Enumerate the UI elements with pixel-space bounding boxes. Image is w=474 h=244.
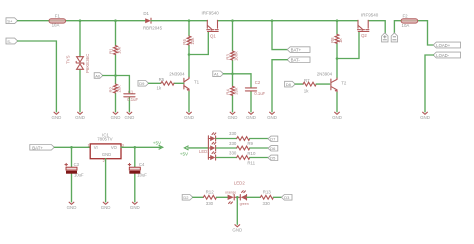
svg-text:F2: F2 bbox=[403, 14, 409, 19]
ground R2 bbox=[111, 112, 121, 120]
junction rail-R6 bbox=[188, 19, 191, 22]
svg-text:330: 330 bbox=[229, 141, 237, 146]
resistor R3 bbox=[225, 21, 238, 74]
flag LOAD- bbox=[433, 52, 460, 58]
resistor R1 bbox=[108, 21, 121, 76]
fuse F2 bbox=[401, 14, 418, 29]
svg-text:D7: D7 bbox=[270, 136, 276, 141]
capacitor C3 bbox=[65, 147, 84, 202]
svg-text:330: 330 bbox=[206, 201, 214, 206]
wire gate node Q2 bbox=[337, 32, 359, 59]
svg-text:T2: T2 bbox=[341, 81, 347, 86]
svg-text:1k: 1k bbox=[157, 85, 162, 90]
ground C1 bbox=[125, 112, 135, 120]
svg-text:T1: T1 bbox=[194, 80, 200, 85]
transistor T1 2N3904 bbox=[169, 55, 199, 112]
junction LED2 center bbox=[236, 196, 239, 199]
svg-text:0.1uF: 0.1uF bbox=[127, 97, 138, 102]
svg-text:Q2: Q2 bbox=[361, 33, 367, 38]
wire BAT+ stub bbox=[272, 21, 287, 50]
svg-text:10uF: 10uF bbox=[137, 173, 147, 178]
capacitor C1 bbox=[124, 76, 139, 112]
svg-text:330: 330 bbox=[263, 201, 271, 206]
svg-text:S-: S- bbox=[7, 39, 12, 44]
svg-text:Q1: Q1 bbox=[210, 33, 216, 38]
supply +5V arrow left LED1 bbox=[180, 146, 209, 157]
svg-text:A0: A0 bbox=[95, 73, 101, 78]
svg-text:20k: 20k bbox=[117, 85, 122, 93]
junction C4 bbox=[134, 146, 137, 149]
junction R8-gate bbox=[336, 57, 339, 60]
flag D8 bbox=[285, 81, 296, 87]
flag S- bbox=[6, 38, 18, 44]
svg-text:10A: 10A bbox=[52, 23, 60, 28]
flag A0 bbox=[94, 73, 103, 79]
svg-text:1: 1 bbox=[88, 144, 90, 148]
wire IC1 GND pin bbox=[105, 159, 107, 202]
svg-text:D9: D9 bbox=[139, 81, 145, 86]
resistor R11 bbox=[216, 151, 268, 166]
svg-text:0.1uF: 0.1uF bbox=[254, 91, 265, 96]
svg-text:D2: D2 bbox=[183, 195, 189, 200]
junction C3 bbox=[70, 146, 73, 149]
resistor R5 bbox=[149, 77, 174, 91]
svg-text:C1: C1 bbox=[128, 89, 134, 94]
svg-text:R5: R5 bbox=[159, 77, 165, 82]
svg-text:20k: 20k bbox=[234, 87, 239, 95]
svg-text:RBR2045: RBR2045 bbox=[143, 26, 163, 31]
flag S+ bbox=[6, 18, 18, 24]
flag D6 bbox=[268, 146, 278, 151]
flag A1 bbox=[213, 71, 224, 77]
svg-text:S+: S+ bbox=[7, 19, 13, 24]
svg-text:P6KE36C: P6KE36C bbox=[85, 54, 90, 73]
resistor R7 bbox=[295, 78, 329, 93]
svg-text:D8: D8 bbox=[286, 82, 292, 87]
ground TVS bbox=[75, 112, 85, 120]
svg-text:A1: A1 bbox=[214, 72, 220, 77]
svg-text:D1: D1 bbox=[143, 11, 149, 16]
wire A0 node bbox=[103, 75, 130, 77]
resistor R8 bbox=[330, 21, 343, 59]
svg-text:R11: R11 bbox=[247, 160, 255, 165]
svg-text:2N3904: 2N3904 bbox=[317, 71, 333, 76]
supply +5V arrow right bbox=[153, 140, 163, 149]
wire rail Q2 drain to B+ terminal bbox=[369, 21, 386, 33]
svg-text:BAT-: BAT- bbox=[291, 58, 301, 63]
svg-text:VO: VO bbox=[111, 145, 118, 150]
junction rail-R3 bbox=[231, 19, 234, 22]
junction rail-TVS bbox=[79, 19, 82, 22]
LED LED2 bicolor bbox=[225, 181, 249, 206]
ground IC1 bbox=[101, 202, 111, 210]
svg-text:+5V: +5V bbox=[180, 152, 189, 157]
svg-text:330: 330 bbox=[229, 151, 237, 156]
capacitor C2 bbox=[245, 74, 265, 112]
junction rail-R1 bbox=[114, 19, 117, 22]
ground BAT- bbox=[267, 112, 277, 120]
resistor R4 bbox=[225, 74, 238, 112]
svg-text:D3: D3 bbox=[284, 195, 290, 200]
resistor R9 bbox=[216, 131, 268, 146]
ground S- bbox=[52, 112, 62, 120]
svg-text:BAT+: BAT+ bbox=[291, 48, 302, 53]
svg-text:10k: 10k bbox=[117, 46, 122, 54]
svg-text:1k: 1k bbox=[304, 88, 309, 93]
svg-text:7805TV: 7805TV bbox=[97, 137, 112, 142]
svg-text:100k: 100k bbox=[234, 51, 239, 61]
fuse F1 bbox=[49, 14, 66, 28]
wire LOAD- to ground bbox=[425, 55, 433, 112]
flag D5 bbox=[268, 155, 278, 160]
svg-text:1k: 1k bbox=[338, 38, 343, 43]
svg-text:C2: C2 bbox=[255, 80, 261, 85]
junction A1-R4 bbox=[231, 73, 234, 76]
flag LOAD+ bbox=[433, 42, 460, 48]
svg-text:2: 2 bbox=[103, 159, 105, 163]
wire A1 node bbox=[223, 73, 251, 75]
svg-text:D6: D6 bbox=[270, 146, 276, 151]
svg-text:R6: R6 bbox=[182, 39, 187, 45]
ground C4 bbox=[130, 202, 140, 210]
resistor R12 bbox=[193, 189, 228, 206]
wire rail terminal 2 to F2 to LOAD+ bbox=[394, 21, 433, 45]
ground LOAD- bbox=[420, 112, 430, 120]
svg-text:TVS: TVS bbox=[66, 55, 71, 64]
wire rail D1 to Q1 bbox=[151, 20, 207, 22]
svg-text:R4: R4 bbox=[225, 89, 230, 95]
ground R4 bbox=[228, 112, 238, 120]
ground C3 bbox=[67, 202, 77, 210]
svg-text:R12: R12 bbox=[206, 189, 215, 194]
ground LED2 bbox=[232, 225, 242, 233]
ground T1 bbox=[184, 112, 194, 120]
svg-text:10A: 10A bbox=[402, 23, 410, 28]
junction A0-R2 bbox=[114, 74, 117, 77]
wire gate node Q1 bbox=[189, 32, 208, 55]
svg-text:R9: R9 bbox=[247, 141, 253, 146]
wire rail Q1 drain to Q2 bbox=[218, 20, 358, 22]
mosfet Q1 IRF9540 bbox=[202, 11, 220, 39]
svg-text:BAT+: BAT+ bbox=[32, 145, 43, 150]
wire top rail left bbox=[18, 20, 146, 22]
transistor T2 2N3904 bbox=[317, 59, 347, 112]
svg-text:D5: D5 bbox=[270, 155, 276, 160]
svg-text:VI: VI bbox=[94, 145, 98, 150]
svg-text:IRF9540: IRF9540 bbox=[202, 11, 220, 16]
svg-text:R13: R13 bbox=[263, 189, 272, 194]
svg-text:green: green bbox=[240, 202, 249, 206]
resistor R6 bbox=[182, 21, 195, 55]
svg-text:IRF9540: IRF9540 bbox=[361, 13, 379, 18]
voltage regulator IC1 7805TV bbox=[88, 133, 124, 163]
svg-text:LED2: LED2 bbox=[234, 181, 246, 186]
flag BAT- bbox=[287, 57, 310, 63]
LED LED1 RGB bbox=[199, 133, 216, 160]
svg-text:330: 330 bbox=[229, 131, 237, 136]
svg-text:R8: R8 bbox=[330, 37, 335, 43]
svg-text:F1: F1 bbox=[55, 14, 61, 19]
svg-text:10uF: 10uF bbox=[74, 173, 84, 178]
flag D7 bbox=[268, 136, 278, 141]
svg-text:R2: R2 bbox=[108, 86, 113, 92]
resistor R2 bbox=[108, 76, 121, 112]
svg-text:LOAD-: LOAD- bbox=[436, 53, 449, 58]
junction rail-BAT+ bbox=[271, 19, 274, 22]
svg-text:GND: GND bbox=[102, 152, 111, 157]
resistor R10 bbox=[216, 141, 268, 156]
flag BAT+ bbox=[287, 47, 310, 53]
svg-text:R7: R7 bbox=[304, 78, 310, 83]
flag D3 bbox=[281, 195, 292, 201]
svg-text:LOAD+: LOAD+ bbox=[436, 43, 450, 48]
svg-text:LED1: LED1 bbox=[199, 149, 210, 154]
wire S- to ground bbox=[18, 41, 57, 112]
svg-text:C4: C4 bbox=[139, 162, 145, 167]
flag D2 bbox=[182, 195, 193, 201]
terminal B+ bbox=[382, 33, 388, 42]
wire TVS column bbox=[79, 21, 81, 112]
resistor R13 bbox=[247, 189, 282, 206]
svg-text:10k: 10k bbox=[190, 37, 195, 45]
svg-text:2N3904: 2N3904 bbox=[169, 72, 185, 77]
wire IC1 VO to +5V bbox=[121, 146, 161, 148]
svg-text:orange: orange bbox=[225, 190, 236, 194]
junction rail-R8 bbox=[336, 19, 339, 22]
svg-text:R1: R1 bbox=[108, 48, 113, 54]
mosfet Q2 IRF9540 bbox=[358, 13, 379, 38]
ground C2 bbox=[246, 112, 256, 120]
TVS diode bbox=[66, 54, 90, 73]
ground T2 bbox=[332, 112, 342, 120]
flag BAT+ regulator input bbox=[30, 145, 55, 151]
terminal B- bbox=[391, 33, 397, 42]
svg-text:R3: R3 bbox=[225, 54, 230, 60]
capacitor C4 bbox=[128, 147, 147, 202]
diode D1 bbox=[143, 11, 163, 31]
junction R6-gate bbox=[188, 53, 191, 56]
svg-text:C3: C3 bbox=[74, 162, 80, 167]
svg-text:+5V: +5V bbox=[153, 140, 162, 145]
wire BAT- to ground bbox=[272, 60, 287, 112]
svg-text:R10: R10 bbox=[247, 151, 256, 156]
wire LED2 to ground bbox=[236, 197, 238, 224]
wire BAT+ to IC1 VI bbox=[54, 146, 90, 148]
flag D9 bbox=[138, 81, 149, 87]
